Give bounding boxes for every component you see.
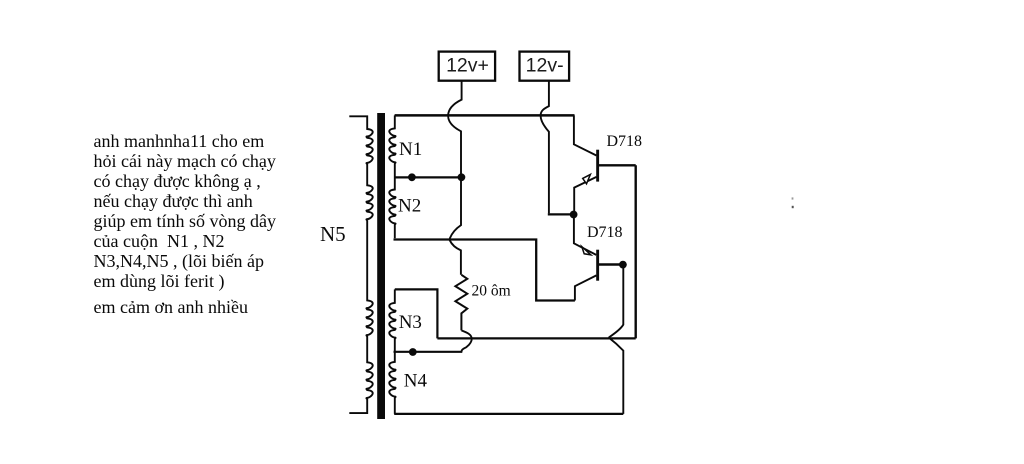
wire Q2 base drop with hop over lower rail	[609, 265, 623, 414]
wire N1/N2 centre tap	[394, 176, 462, 178]
svg-text:N1: N1	[399, 139, 422, 160]
node N3/N4 tap dot	[409, 348, 417, 356]
wire lower horizontal rail to Q1 base drop	[437, 337, 635, 339]
svg-text:12v-: 12v-	[526, 55, 564, 77]
svg-text:D718: D718	[587, 224, 623, 241]
supply box 12v+	[439, 52, 495, 81]
svg-text:N3: N3	[399, 312, 422, 333]
transistor Q2 collector to N2-bottom wire	[575, 275, 597, 300]
supply box 12v-	[520, 52, 570, 81]
node emitter junction dot	[570, 211, 578, 219]
resistor R1 20 ohm	[455, 275, 467, 331]
node tap dot left	[408, 173, 416, 181]
node Q2 base dot	[619, 261, 627, 269]
question text block	[94, 131, 277, 312]
transistor Q2 D718 emitter arrow	[582, 247, 591, 255]
wire resistor bottom hop to N3/N4 tap	[461, 330, 471, 351]
wire N3 top to base rail	[395, 289, 438, 338]
wire Q1 base lead	[599, 164, 636, 166]
svg-text:20 ôm: 20 ôm	[472, 283, 511, 300]
transistor Q2 D718 base bar	[596, 250, 599, 281]
svg-text:N5: N5	[320, 222, 346, 246]
wire bottom N4 to Q2 base drop	[394, 413, 623, 415]
wire 12v+ lead down with hop over top rail	[448, 81, 462, 275]
winding N3 and N4 (lower secondary)	[389, 289, 395, 414]
svg-text:N4: N4	[404, 370, 428, 391]
svg-text:12v+: 12v+	[446, 55, 489, 77]
node tap dot at 12v+ line	[458, 173, 466, 181]
wire top rail	[395, 114, 575, 117]
wire Q1 base drop down right side	[635, 165, 637, 338]
winding N1 and N2 (upper secondary)	[389, 115, 395, 238]
wire N3/N4 centre tap	[394, 351, 463, 353]
transistor Q1 emitter with arrow	[574, 177, 596, 214]
wire 12v- to emitter junction	[548, 213, 574, 215]
wire top rail corner down to Q1 collector	[574, 115, 597, 155]
stray speck marks	[792, 197, 794, 199]
winding N5 (left side of transformer)	[349, 116, 372, 413]
wire 12v- lead down with hop over top rail	[541, 81, 549, 214]
wire N2 bottom to Q2 collector	[394, 240, 575, 301]
transformer core bar	[377, 113, 385, 419]
wire Q2 base lead	[599, 263, 623, 265]
wire junction down to Q2 emitter	[574, 215, 596, 255]
svg-text:N2: N2	[398, 195, 421, 216]
transistor Q1 D718 base bar	[596, 150, 599, 182]
svg-text:D718: D718	[607, 133, 643, 150]
